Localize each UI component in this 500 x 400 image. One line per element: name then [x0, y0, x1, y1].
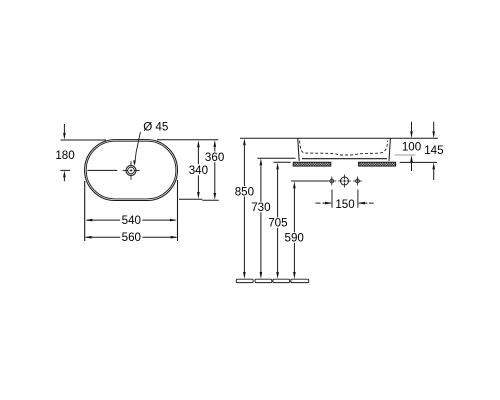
extension line right width (540/560) — [177, 180, 179, 241]
basin inner rim (540x340 oval) — [86, 141, 176, 199]
dimension 180 lower arrow — [63, 177, 65, 181]
svg-text:100: 100 — [402, 140, 421, 153]
drain crosshair ticks — [123, 161, 140, 180]
dimension 100 lower arrow — [411, 162, 413, 171]
dimension 180 upper line and arrow — [63, 124, 65, 133]
extension line 100 (gray) — [395, 154, 416, 156]
extension line 145 bottom — [400, 161, 437, 163]
dimension 540 line with outward arrows — [87, 219, 176, 221]
basin outer rim (560x360 oval) — [85, 140, 178, 201]
dimension 560 line with outward arrows — [86, 236, 177, 238]
dimension 705 line with arrows — [277, 169, 279, 272]
svg-text:180: 180 — [55, 149, 74, 162]
floor slab 4 — [291, 279, 309, 282]
svg-text:145: 145 — [424, 144, 443, 157]
dimension 145 lower arrow — [433, 169, 435, 180]
extension line bottom of oval (340) — [179, 198, 202, 200]
dimension 360 line with arrows — [214, 147, 216, 194]
drain hole outer circle — [126, 166, 136, 176]
svg-text:360: 360 — [205, 151, 224, 164]
dimension 730 line with arrows — [260, 165, 262, 272]
leader line from diameter label to drain — [135, 132, 141, 164]
leader arrowhead — [133, 160, 136, 166]
svg-text:730: 730 — [251, 201, 270, 214]
dimension 100 upper line and arrow — [411, 122, 413, 131]
floor slab 2 — [255, 279, 272, 282]
drain hole inner circle — [128, 167, 135, 174]
dimension 590 line with arrows — [293, 188, 295, 272]
svg-text:560: 560 — [122, 231, 141, 244]
dimension 150 line with outside arrows — [316, 202, 374, 204]
svg-text:705: 705 — [268, 217, 287, 230]
svg-text:540: 540 — [122, 214, 141, 227]
rim level line (basin top + extension both sides) — [240, 137, 438, 139]
svg-text:340: 340 — [189, 164, 208, 177]
svg-text:850: 850 — [235, 185, 254, 198]
dimension 145 upper line and arrow — [433, 122, 435, 131]
extension line left width (540/560) — [84, 181, 86, 241]
dimension 850 line with arrows — [243, 145, 245, 272]
basin left edge — [298, 138, 300, 161]
svg-text:590: 590 — [285, 232, 304, 245]
basin inner bowl hidden (dashed) outline — [300, 141, 388, 155]
extension line basin bottom level left (705) — [274, 161, 291, 163]
extension line top of oval (for 180 dim) — [61, 139, 106, 141]
faucet hole center — [341, 177, 349, 185]
svg-text:150: 150 — [335, 198, 354, 211]
extension lines for 150 dim — [332, 190, 358, 208]
floor slab 3 — [273, 279, 290, 282]
extension line countertop level left (730) — [258, 157, 296, 159]
dimension 340 line with arrows — [197, 147, 199, 193]
basin horizontal centerline — [60, 169, 117, 171]
countertop cross-section right (hatched) — [359, 162, 396, 166]
faucet hole left — [330, 179, 334, 183]
svg-text:Ø 45: Ø 45 — [143, 121, 168, 134]
floor slab 1 — [236, 279, 253, 282]
extension line bottom of oval (360) — [202, 199, 219, 201]
faucet hole right — [356, 179, 360, 183]
extension line top right (for 340/360 dims) — [157, 139, 218, 141]
countertop cross-section left (hatched) — [293, 162, 331, 166]
basin bottom edge — [302, 158, 387, 160]
basin right edge — [389, 138, 390, 161]
faucet centerline (also 590 extension) — [291, 180, 328, 182]
